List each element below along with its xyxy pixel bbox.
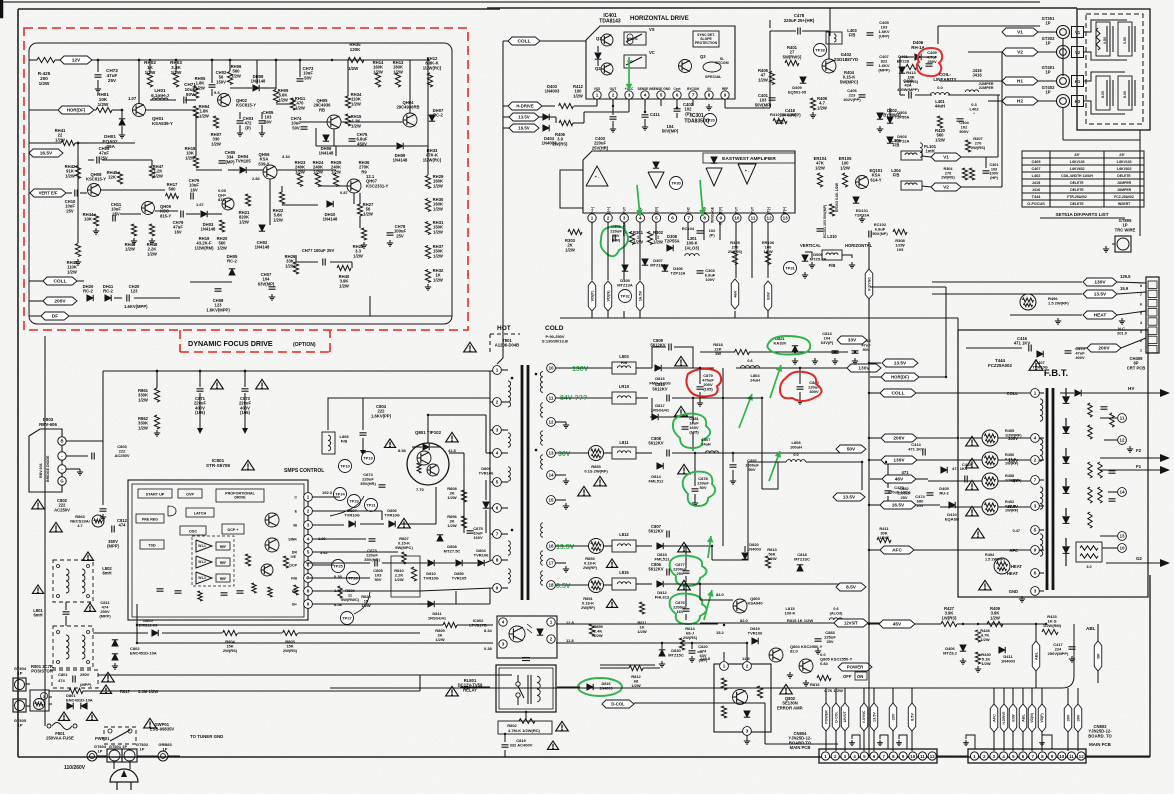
capacitor C873b 220uF 35V(HR)	[369, 538, 376, 540]
svg-text:1P: 1P	[1045, 41, 1050, 46]
vertical pill VD(N)	[604, 281, 612, 311]
svg-text:24uH: 24uH	[701, 442, 711, 446]
svg-text:471 1KV: 471 1KV	[1014, 341, 1031, 346]
svg-text:4: 4	[639, 216, 642, 221]
terminal 200V rail	[881, 434, 917, 442]
testpoint TP28	[814, 44, 827, 57]
svg-text:63V(MP): 63V(MP)	[258, 281, 275, 286]
svg-text:1mH: 1mH	[925, 149, 934, 154]
svg-text:COLL: COLL	[891, 391, 904, 397]
svg-text:50V(MP): 50V(MP)	[662, 129, 679, 134]
svg-text:0.87: 0.87	[340, 190, 349, 195]
svg-text:FML512: FML512	[655, 557, 671, 562]
svg-text:3: 3	[746, 729, 749, 734]
FBT pin 14 right	[1118, 488, 1127, 497]
svg-text:(P): (P)	[245, 125, 251, 130]
resistor ER103 5.6K	[829, 204, 834, 216]
resistor RH32 1K 1/2W	[425, 270, 430, 283]
resistor RH45 12K	[117, 172, 122, 184]
svg-text:7: 7	[692, 93, 695, 98]
resistor R428 4.7K 1/2W	[975, 630, 980, 642]
wire hot rail top	[103, 370, 497, 372]
capacitor C401 103 50V(MP)	[769, 97, 776, 99]
svg-text:4: 4	[644, 93, 647, 98]
svg-text:TP10: TP10	[340, 464, 350, 469]
svg-text:RC-2: RC-2	[227, 259, 237, 264]
resistor R861 330K 1/2W	[154, 388, 159, 402]
diode DH05 RC-2	[229, 269, 235, 275]
svg-text:RBV-606: RBV-606	[39, 463, 43, 478]
capacitor CH71 10uF 50V	[183, 97, 185, 104]
warning triangle 84V	[675, 406, 688, 416]
svg-text:ERB12-06: ERB12-06	[139, 623, 158, 628]
svg-text:DELETE: DELETE	[1070, 202, 1084, 206]
svg-text:RBV-606: RBV-606	[39, 422, 57, 427]
svg-text:129.5: 129.5	[1120, 274, 1131, 279]
svg-text:25V: 25V	[66, 208, 74, 213]
wire DH05 row	[190, 281, 232, 283]
svg-text:TP25: TP25	[333, 564, 343, 569]
diode D307 MTZ18A	[642, 259, 648, 265]
resistor R412 100 1/2W	[559, 103, 574, 108]
svg-text:3: 3	[1034, 504, 1037, 509]
svg-text:46V: 46V	[895, 477, 904, 483]
diode DH11 RC-2	[105, 295, 111, 301]
IC801 transistor drv2	[265, 538, 279, 552]
transistor QH10 inner	[222, 198, 234, 210]
capacitor C302 220uF 25V (HR)	[612, 235, 614, 242]
svg-text:50V: 50V	[699, 485, 706, 490]
svg-text:JUMPER: JUMPER	[979, 86, 994, 90]
OSC block	[180, 526, 206, 535]
wire RH27 col	[359, 193, 361, 204]
resistor R409 3.9K 1/2W	[987, 621, 1003, 626]
testpoint TP30	[670, 177, 683, 190]
svg-text:35V(HR): 35V(HR)	[360, 481, 376, 486]
svg-text:44uH: 44uH	[935, 104, 945, 109]
svg-text:332 AC400V: 332 AC400V	[510, 743, 533, 748]
svg-text:2: 2	[550, 637, 553, 642]
svg-text:F/B: F/B	[291, 577, 297, 581]
svg-text:41.8: 41.8	[448, 448, 457, 453]
svg-text:H2: H2	[1017, 99, 1023, 105]
resistor R305 270 2W(RS)	[732, 252, 737, 265]
svg-text:LTVB17B: LTVB17B	[469, 623, 487, 628]
capacitor C880 220uF 300V red circled	[797, 386, 804, 388]
svg-text:S:130/30/13.8/: S:130/30/13.8/	[542, 339, 569, 344]
resistor R809 2K 1/2W	[443, 622, 457, 627]
svg-text:V-SYNC: V-SYNC	[867, 277, 871, 291]
transformer primary pins	[493, 366, 502, 375]
svg-text:C405: C405	[1031, 160, 1040, 164]
svg-text:2SD1887YD: 2SD1887YD	[834, 57, 858, 62]
square pad H2	[1072, 96, 1084, 107]
svg-text:1N4148: 1N4148	[393, 158, 408, 163]
svg-text:1.6KV822: 1.6KV822	[1116, 167, 1131, 171]
FBT focus divider resistors	[1088, 462, 1092, 478]
resistor RH31 150K 1/2W	[425, 222, 430, 235]
FBT core bars	[1046, 388, 1049, 590]
choke L802 6mH dashed box	[53, 560, 93, 602]
page top edge line	[2, 1, 1040, 3]
terminal 130V rail	[881, 456, 917, 464]
resistor R401 27 5W(RWS)	[785, 60, 799, 65]
resistor RH26 33K 1/2W	[293, 262, 298, 274]
svg-text:1/2W: 1/2W	[817, 105, 827, 110]
resistor RH37 160K 1/2W	[425, 246, 430, 259]
svg-text:4.7K 1/2W: 4.7K 1/2W	[824, 688, 843, 693]
green arrow 13.5V	[708, 536, 711, 558]
resistor RH09 5.6K 1/2W	[273, 90, 278, 103]
wire 30V rail	[672, 452, 848, 454]
svg-text:500V: 500V	[959, 129, 969, 134]
svg-text:1/2W: 1/2W	[65, 173, 75, 178]
svg-text:BRIDGE DIODE: BRIDGE DIODE	[46, 455, 50, 482]
svg-text:J416: J416	[972, 73, 982, 78]
capacitor C802 222 AC250V	[100, 508, 107, 510]
transistor EQ101 KSA614-Y	[856, 176, 869, 189]
ground pin8	[708, 104, 710, 107]
resistor RH46 1/2W	[131, 224, 136, 236]
wire linearity rails	[900, 94, 905, 96]
svg-text:B+: B+	[292, 603, 297, 607]
svg-text:ABL: ABL	[1086, 626, 1096, 631]
terminal COLL	[43, 277, 77, 285]
svg-text:1.67: 1.67	[196, 202, 205, 207]
green arrow 30V	[769, 451, 780, 481]
svg-text:GT801 1P: GT801 1P	[109, 744, 128, 749]
green arrow L804	[739, 394, 752, 428]
wire 84V rail to right	[672, 397, 762, 399]
svg-text:25V: 25V	[108, 78, 117, 83]
svg-text:VERT E/F: VERT E/F	[39, 191, 58, 196]
svg-text:50V: 50V	[292, 125, 300, 130]
svg-text:15.2: 15.2	[716, 630, 725, 635]
warning triangle R853	[594, 476, 607, 486]
svg-text:DELETE: DELETE	[1117, 174, 1131, 178]
relay RL801 DC12V-TV59 box	[496, 665, 556, 712]
capacitor C820 474 63V(MP)	[689, 650, 696, 652]
svg-text:4.7M-K 1/2W(RC): 4.7M-K 1/2W(RC)	[508, 728, 541, 733]
diode DH04 TVH105	[240, 167, 246, 173]
svg-text:TVR10G: TVR10G	[344, 513, 360, 518]
svg-text:2.82: 2.82	[252, 176, 261, 181]
terminal 12V	[60, 56, 92, 64]
page border top right segment	[487, 7, 1077, 9]
terminal HOR(DF)	[58, 106, 94, 114]
svg-text:VD(N): VD(N)	[1030, 713, 1034, 722]
svg-text:16.5V: 16.5V	[40, 151, 53, 157]
CN803 pin 5	[1009, 752, 1017, 760]
svg-text:3: 3	[628, 93, 631, 98]
svg-text:10: 10	[910, 754, 915, 759]
terminal 46V rail	[882, 475, 916, 483]
svg-text:5W(RWC): 5W(RWC)	[341, 597, 360, 602]
posistor box	[30, 690, 49, 711]
resistor R408 4.7 1/2W	[810, 98, 815, 110]
IC801 transistor drv3	[261, 564, 273, 576]
svg-text:DRIVE: DRIVE	[234, 496, 246, 500]
relay top cap	[522, 657, 530, 659]
capacitor CH76 16V	[190, 193, 192, 200]
svg-text:100uH: 100uH	[790, 445, 802, 450]
wire riser Q802 pin1	[723, 652, 725, 661]
svg-text:8.5V: 8.5V	[846, 585, 857, 591]
svg-text:HORIZONTAL: HORIZONTAL	[845, 243, 873, 248]
resistor R307 270 2W(RS)	[965, 140, 970, 152]
resistor RH22 5.6K 1/2W	[279, 192, 284, 204]
svg-text:24uH: 24uH	[750, 378, 760, 383]
IC401 osc circle	[627, 34, 633, 40]
svg-text:L812: L812	[619, 532, 629, 537]
resistor RH03 3.3K 1/2W	[173, 73, 178, 87]
warning triangle T801	[464, 342, 477, 352]
wire yoke box down	[1139, 130, 1141, 236]
resistor RH30 160K 1/2W	[425, 199, 430, 212]
wire 16.5V	[870, 504, 880, 506]
yoke horizontal coil pair	[1096, 76, 1110, 110]
transistor QH08 KSC815-Y	[88, 184, 101, 197]
svg-text:1N4003: 1N4003	[1001, 659, 1016, 664]
wire B+ rail	[312, 603, 490, 605]
svg-text:1W(RF): 1W(RF)	[1005, 462, 1019, 466]
svg-text:7: 7	[1140, 293, 1142, 297]
warning triangle L801	[32, 585, 43, 593]
wire 13.5V to CRT	[932, 293, 1082, 295]
svg-text:12K: 12K	[108, 175, 116, 180]
diode DH20 RC-2	[87, 295, 93, 301]
testpoint TP21	[365, 499, 378, 512]
terminal H1	[1002, 77, 1038, 85]
wire 130V to cap	[662, 367, 714, 369]
CN803 pin wires	[993, 732, 995, 751]
svg-text:DCP +: DCP +	[228, 528, 239, 532]
wire FBT pin stubs	[1039, 392, 1044, 394]
wire Q801 emitter rail	[449, 452, 464, 454]
capacitor C404b 102 500V	[957, 118, 964, 120]
svg-text:2W(RS): 2W(RS)	[223, 648, 238, 653]
svg-text:1/2W: 1/2W	[433, 277, 443, 282]
connector ring GT402 1P	[1057, 95, 1070, 108]
svg-text:50V(NP): 50V(NP)	[872, 231, 888, 236]
resistor linearity shunt	[969, 168, 974, 180]
svg-text:815-Y: 815-Y	[160, 213, 171, 218]
svg-text:8: 8	[496, 558, 499, 563]
svg-text:1/2W: 1/2W	[147, 251, 157, 256]
svg-text:7: 7	[496, 532, 499, 537]
DCP block	[222, 524, 244, 534]
svg-text:T2P55A: T2P55A	[895, 115, 910, 120]
green arrow in IC401	[628, 57, 630, 90]
warning triangle C873	[256, 379, 269, 389]
junction dots scatter	[138, 59, 140, 61]
logic gate	[168, 506, 176, 516]
svg-text:BY228: BY228	[897, 59, 910, 64]
wire F/B	[312, 577, 370, 579]
resistor R812 68 1/2W	[629, 665, 643, 670]
ground pin 14	[555, 474, 566, 476]
wire crt feeds	[1117, 282, 1146, 283]
svg-text:46V: 46V	[732, 290, 737, 297]
capacitor C409 4.7uF 250V red circled	[926, 63, 933, 65]
svg-text:1/2W: 1/2W	[633, 239, 643, 244]
svg-text:13.5V: 13.5V	[843, 495, 856, 501]
FBT primary winding bumps	[1040, 399, 1043, 421]
diode D802 ENC451D-10A zener	[112, 640, 118, 646]
svg-text:F/B: F/B	[849, 33, 856, 38]
svg-text:FTR-25A002: FTR-25A002	[1067, 195, 1087, 199]
svg-text:(105): (105)	[703, 387, 713, 392]
svg-text:(ALO3): (ALO3)	[685, 245, 700, 250]
FBT focus caps	[1109, 470, 1116, 472]
zener diode DH01 EQA02-06A	[119, 119, 125, 125]
svg-text:1: 1	[550, 620, 553, 625]
resistor R411 30K 1/2W	[877, 537, 891, 542]
svg-text:TP19: TP19	[363, 456, 373, 461]
wire D830 stub	[661, 643, 663, 649]
svg-text:2: 2	[307, 509, 310, 514]
capacitor C417 224 250V(MPP)	[1069, 646, 1076, 648]
curve TP sweep	[330, 496, 364, 516]
wire vertical left of IC401	[502, 41, 504, 155]
transformer secondary pins	[547, 364, 556, 373]
diode D410 EQA series	[949, 502, 955, 508]
connector CN803 strip	[968, 749, 1086, 763]
svg-text:KSA539-Y: KSA539-Y	[152, 121, 173, 126]
resistor RH40 3.9K 1/2W	[337, 265, 351, 270]
zener D830 MTZ15C	[659, 650, 665, 656]
wire row	[316, 145, 396, 147]
wires under IC401	[583, 112, 585, 123]
svg-text:TP27: TP27	[342, 616, 352, 621]
svg-text:0.1S 2W(RF): 0.1S 2W(RF)	[584, 469, 608, 474]
diode D308 T2P55A	[667, 245, 673, 251]
transistor Q801 TIP102 power darlington	[407, 443, 449, 485]
wire QH08 row	[80, 192, 87, 194]
wire pin6 OCP stub	[312, 564, 334, 566]
inductor L403 F/B	[826, 32, 842, 44]
svg-text:T444: T444	[1032, 195, 1042, 199]
square pad H1	[1072, 76, 1084, 87]
svg-text:FHL613: FHL613	[655, 595, 670, 600]
capacitor C411	[642, 114, 649, 116]
IC301 outline	[583, 151, 795, 213]
svg-text:(105): (105)	[195, 410, 205, 415]
resistor ER105 100 1/2W	[842, 173, 847, 187]
svg-text:HV: HV	[1128, 386, 1135, 391]
svg-text:471: 471	[902, 470, 910, 475]
resistor RH02 1K 1/2W	[147, 73, 152, 87]
svg-text:12: 12	[1119, 438, 1125, 443]
green arrow 130V	[770, 365, 781, 398]
resistor RH29 160K 1/2W	[425, 176, 430, 189]
svg-text:10: 10	[548, 366, 554, 371]
svg-text:F/B: F/B	[829, 263, 836, 268]
diode D402 BYW96D	[877, 113, 883, 119]
svg-text:F/B: F/B	[893, 173, 900, 178]
svg-text:PROTECTION: PROTECTION	[695, 41, 718, 45]
svg-text:EASTWEST AMPLIFIER: EASTWEST AMPLIFIER	[722, 156, 776, 162]
inductor FL101 1mH	[920, 143, 922, 157]
svg-text:33V: 33V	[848, 338, 857, 344]
svg-text:30V: 30V	[1076, 714, 1080, 721]
wire RH18 drop	[195, 113, 197, 156]
resistor RH23 240K 1/2W	[297, 174, 302, 187]
svg-text:16.5V: 16.5V	[637, 290, 642, 301]
warning triangle C812	[82, 552, 93, 560]
svg-text:FCZ29A002: FCZ29A002	[988, 363, 1012, 368]
svg-text:DF: DF	[1095, 653, 1100, 659]
svg-text:H2: H2	[1075, 99, 1081, 104]
yoke vertical wiring	[1083, 20, 1127, 32]
svg-text:6: 6	[496, 506, 499, 511]
terminal COLL top	[508, 37, 540, 45]
resistor R302 1/2W	[647, 232, 652, 245]
svg-text:(UFP): (UFP)	[879, 34, 890, 39]
wire pin4 SINK row	[312, 538, 366, 540]
svg-text:15.9: 15.9	[1120, 286, 1129, 291]
svg-text:120K: 120K	[350, 47, 361, 52]
wire DH09 link	[404, 145, 428, 147]
svg-text:5612KV: 5612KV	[648, 529, 663, 534]
wire IC301 left loop	[560, 170, 583, 208]
diode D805 ERB12-06	[152, 630, 158, 636]
svg-text:L815: L815	[619, 570, 629, 575]
capacitor C897 1000uF 50V	[730, 464, 737, 466]
svg-text:1/2W: 1/2W	[273, 217, 283, 222]
wire plug leads	[97, 755, 107, 757]
svg-text:25V: 25V	[900, 495, 907, 500]
svg-text:KSC2331-Y: KSC2331-Y	[366, 183, 389, 188]
terminal 130V crt	[1083, 278, 1117, 286]
svg-text:R815 1K 1/2W: R815 1K 1/2W	[787, 618, 813, 623]
terminal H-DRIVE	[508, 102, 542, 110]
svg-text:105: 105	[897, 247, 904, 252]
wire DF rail	[69, 315, 452, 317]
IC301 amp triangle pin5	[648, 172, 664, 188]
diode DH08 1N4148	[253, 85, 259, 91]
svg-text:OCP: OCP	[289, 564, 297, 568]
capacitor C801 474 250V(MPP) box	[52, 670, 98, 688]
warning triangle IC801	[242, 460, 255, 470]
svg-text:R816: R816	[810, 682, 820, 687]
deflection yoke inner dashed box	[1086, 14, 1143, 124]
wire 16.5V node	[78, 142, 135, 144]
LATCH block	[186, 508, 214, 517]
svg-text:TVH105: TVH105	[235, 159, 251, 164]
terminal HOR(DF) rail	[881, 373, 919, 381]
resistor R811 1K 1/2W	[639, 602, 644, 614]
svg-text:VS: VS	[649, 27, 655, 32]
green ellipse around C302	[601, 226, 628, 256]
choke L801 6mH dashed box	[53, 626, 93, 668]
vertical pill 12VS/T	[841, 703, 849, 731]
svg-text:110/260V: 110/260V	[64, 765, 86, 771]
transistor Q2 inside IC401	[601, 63, 613, 75]
svg-text:1/2W: 1/2W	[278, 97, 288, 102]
wire 13.5V east then down	[711, 546, 713, 560]
arrowheads on cap drains	[197, 428, 203, 434]
svg-text:TRC WIRE: TRC WIRE	[1115, 227, 1136, 232]
warning triangle C811	[84, 603, 95, 611]
svg-text:1: 1	[723, 664, 726, 669]
CN803 pin 4	[1000, 752, 1008, 760]
svg-text:25V: 25V	[916, 503, 923, 508]
svg-text:TVR10G: TVR10G	[1032, 365, 1048, 370]
wire HH	[312, 590, 420, 592]
svg-text:ER103 5.6K 1/2W: ER103 5.6K 1/2W	[835, 182, 839, 212]
svg-text:1/2W: 1/2W	[239, 219, 249, 224]
